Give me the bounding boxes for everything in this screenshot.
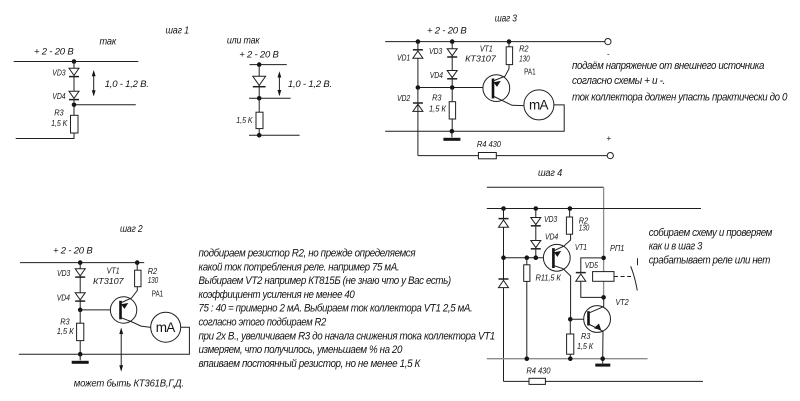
wire R2 top stub step3 xyxy=(508,42,510,47)
diode VD3 step3 xyxy=(447,49,457,57)
svg-text:VD4: VD4 xyxy=(545,233,559,242)
wire R2 top stub step4 xyxy=(569,209,571,218)
svg-text:подбираем резистор R2, но преж: подбираем резистор R2, но прежде определ… xyxy=(199,248,416,260)
wire meter to right and down step3 xyxy=(385,105,564,131)
wire top rail step1-right xyxy=(250,64,287,66)
svg-text:как и в шаг 3: как и в шаг 3 xyxy=(649,241,703,253)
svg-text:подаём напряжение от внешнего: подаём напряжение от внешнего источника xyxy=(572,60,764,72)
svg-text:согласно этого подбираем R2: согласно этого подбираем R2 xyxy=(199,317,327,329)
svg-text:1,5 К: 1,5 К xyxy=(577,342,594,351)
svg-text:130: 130 xyxy=(519,55,530,64)
node top junction step1-left xyxy=(72,59,77,64)
ground step2 xyxy=(72,354,89,364)
svg-text:впаиваем постоянный резистор,: впаиваем постоянный резистор, но не мене… xyxy=(199,358,421,370)
node R2 top step4 xyxy=(568,206,573,211)
diode VD4 (step1-left) xyxy=(69,91,79,99)
svg-text:PA1: PA1 xyxy=(524,67,536,76)
node left col top step4 xyxy=(501,206,506,211)
resistor R4 step3 xyxy=(478,153,496,159)
svg-text:130: 130 xyxy=(579,223,590,232)
node VT2 emitter step4 xyxy=(600,356,605,361)
svg-text:mA: mA xyxy=(156,320,175,335)
svg-text:так: так xyxy=(100,37,118,48)
node VD3 top step4 xyxy=(534,206,539,211)
svg-text:собираем схему и проверяем: собираем схему и проверяем xyxy=(649,227,773,239)
node top junction step1-right xyxy=(257,62,262,67)
svg-text:R3: R3 xyxy=(581,332,591,341)
diode VD4 step2 xyxy=(75,293,85,301)
diode VD5 (up) step4 xyxy=(576,273,586,282)
svg-text:+ 2 - 20 В: + 2 - 20 В xyxy=(239,49,279,60)
svg-text:130: 130 xyxy=(148,276,159,285)
svg-text:или так: или так xyxy=(227,36,261,47)
measure arrow 1,0-1,2V step1-left xyxy=(92,70,96,97)
svg-text:шаг 1: шаг 1 xyxy=(166,26,190,37)
node VT2 base junction step4 xyxy=(568,317,573,322)
diode VD3 step2 xyxy=(75,269,85,277)
svg-text:R3: R3 xyxy=(54,108,64,117)
wire VT2 base rail step4 xyxy=(570,318,589,320)
relay coil box step4 xyxy=(593,272,614,282)
svg-text:VD5: VD5 xyxy=(585,261,598,270)
svg-text:может быть КТ361В,Г,Д.: может быть КТ361В,Г,Д. xyxy=(74,378,184,390)
svg-text:VD2: VD2 xyxy=(397,94,411,103)
svg-text:при 2х В., увеличиваем R3 до н: при 2х В., увеличиваем R3 до начала сниж… xyxy=(199,330,496,342)
node VD3 top step2 xyxy=(78,260,83,265)
node R1 top step4 xyxy=(525,255,530,260)
node ground junction step2 xyxy=(78,352,83,357)
wire R3 column step3 xyxy=(451,88,453,132)
diode VD4 step4 xyxy=(531,241,541,249)
wire R2 top stub step2 xyxy=(136,263,138,271)
wire bottom rail step1-right xyxy=(249,134,300,136)
svg-text:1,5 K: 1,5 K xyxy=(236,116,253,125)
wire top rail step1-left xyxy=(14,61,139,63)
wire emitter ground rail step4 (gray) xyxy=(487,358,648,360)
diode VD3 step4 xyxy=(531,218,541,226)
svg-text:VD4: VD4 xyxy=(52,92,66,101)
resistor R3 step4 xyxy=(567,334,574,354)
svg-text:VD3: VD3 xyxy=(57,269,71,278)
node bottom junction step1-right xyxy=(257,133,262,138)
resistor R3 step3 xyxy=(449,102,455,119)
node mid junction step1-right xyxy=(257,96,262,101)
resistor R2 step3 xyxy=(506,47,512,65)
svg-text:R4 430: R4 430 xyxy=(526,366,550,375)
wire relay supply vertical (gray) step4 xyxy=(603,187,605,297)
svg-text:PA1: PA1 xyxy=(152,290,164,299)
svg-text:коэффициент усиления не менее: коэффициент усиления не менее 40 xyxy=(199,289,355,301)
wire R1 column step4 xyxy=(526,258,528,359)
node mid junction step1-left xyxy=(72,103,77,108)
node R2 top step2 xyxy=(135,260,140,265)
wire bottom rail step3 xyxy=(418,155,607,157)
svg-text:R2: R2 xyxy=(519,45,529,54)
wire diode column step1-right xyxy=(258,65,260,99)
svg-text:шаг 2: шаг 2 xyxy=(120,224,143,235)
svg-text:VD3: VD3 xyxy=(52,68,66,77)
measure arrow step1-right xyxy=(278,71,282,96)
ground step4 xyxy=(595,359,610,367)
svg-text:+: + xyxy=(607,134,612,143)
svg-text:mA: mA xyxy=(529,98,548,113)
wire VD2 column down step3 xyxy=(417,88,419,156)
svg-text:R3: R3 xyxy=(60,317,70,326)
diode VD2 (up) step3 xyxy=(413,103,423,111)
svg-text:VD3: VD3 xyxy=(544,215,558,224)
node relay bottom step4 xyxy=(601,295,606,300)
svg-text:1,5 K: 1,5 K xyxy=(51,119,68,128)
svg-text:R4 430: R4 430 xyxy=(477,140,501,149)
svg-text:ток коллектора должен упасть п: ток коллектора должен упасть практически… xyxy=(572,91,787,103)
svg-text:РП1: РП1 xyxy=(610,244,624,253)
wire mid rail step1-left xyxy=(74,104,136,106)
diode VD1 (up) xyxy=(413,50,423,58)
svg-text:VD1: VD1 xyxy=(397,54,410,63)
node R3 bottom / ground step3 xyxy=(450,129,455,134)
node VD1 top xyxy=(416,39,421,44)
wire left column step3 xyxy=(417,42,419,88)
diode VD4 step3 xyxy=(447,71,457,79)
wire resistor to bottom step1-left xyxy=(73,105,75,139)
svg-text:VD3: VD3 xyxy=(429,47,443,56)
resistor R1 step4 xyxy=(524,265,530,282)
svg-text:1,5 К: 1,5 К xyxy=(57,327,75,336)
wire top rail step2 xyxy=(20,262,144,264)
diode D-left-2 (up) step4 xyxy=(499,279,509,288)
svg-text:R11,5 К: R11,5 К xyxy=(536,274,562,283)
node R3 bottom step4 xyxy=(568,356,573,361)
wire R3 column step4 xyxy=(569,319,571,358)
diode D-left-1 (up) step4 xyxy=(499,219,509,228)
resistor R2 step4 xyxy=(566,217,572,234)
svg-text:шаг 3: шаг 3 xyxy=(495,13,518,24)
transistor VT2 step4 xyxy=(584,297,611,358)
resistor R4 step4 xyxy=(529,378,545,384)
node R1 bottom step4 xyxy=(525,356,530,361)
resistor 1,5K (step1-right) xyxy=(256,112,263,128)
wire bottom rail step4 xyxy=(504,380,704,382)
wire mid rail step1-right xyxy=(249,97,291,99)
wire resistor column step1-right xyxy=(258,98,260,135)
svg-text:какой ток потребления реле. на: какой ток потребления реле. например 75 … xyxy=(199,261,400,273)
relay dashed link step4 xyxy=(614,276,631,278)
meter PA1 mA step3 xyxy=(524,90,554,120)
svg-text:КТ3107: КТ3107 xyxy=(465,55,496,64)
ground step3 xyxy=(443,131,460,141)
wire diode column step1-left xyxy=(73,62,75,105)
terminal plus step3 xyxy=(607,153,613,159)
svg-text:R3: R3 xyxy=(432,94,442,103)
svg-text:срабатывает реле или нет: срабатывает реле или нет xyxy=(649,255,771,267)
svg-text:согласно схемы + и -.: согласно схемы + и -. xyxy=(572,75,665,87)
pointer arrow step2 xyxy=(119,328,123,372)
transistor VT1 step3 xyxy=(483,65,524,106)
svg-text:VD4: VD4 xyxy=(57,294,71,303)
terminal minus step3 xyxy=(605,39,611,45)
diode VD3 (step1-left) xyxy=(69,68,79,76)
diode VD (step1-right) xyxy=(253,76,266,86)
svg-text:КТ3107: КТ3107 xyxy=(93,277,124,286)
node VD3 top step3 xyxy=(450,39,455,44)
node VD4 bottom step4 xyxy=(534,255,539,260)
svg-text:75 : 40 = примерно 2 мА. Выбир: 75 : 40 = примерно 2 мА. Выбираем ток ко… xyxy=(199,303,473,315)
svg-text:VD4: VD4 xyxy=(430,71,444,80)
wire base rail step4 xyxy=(504,257,553,259)
node R3 top step3 xyxy=(450,85,455,90)
svg-text:1,0 - 1,2 В.: 1,0 - 1,2 В. xyxy=(288,79,332,90)
wire VD5 branch step4 xyxy=(581,258,604,298)
node left col mid step4 xyxy=(501,255,506,260)
resistor R2 step2 xyxy=(135,270,141,287)
wire top rail 2 step4 xyxy=(487,208,701,210)
svg-text:VT1: VT1 xyxy=(575,243,587,252)
transistor VT1 step4 xyxy=(543,234,570,319)
wire bottom rail step1-left xyxy=(16,138,75,140)
svg-text:1,0 - 1,2 В.: 1,0 - 1,2 В. xyxy=(105,79,149,90)
wire R3 column step2 xyxy=(79,310,81,354)
wire base rail step3 xyxy=(418,87,492,89)
relay contact step4 xyxy=(631,258,638,290)
svg-text:+ 2 - 20 В: + 2 - 20 В xyxy=(34,47,74,58)
svg-text:+ 2 - 20 В: + 2 - 20 В xyxy=(53,246,93,257)
svg-text:VT1: VT1 xyxy=(480,45,493,54)
wire top rail step3 xyxy=(385,41,605,43)
node left mid step3 xyxy=(416,85,421,90)
wire top rail 1 step4 xyxy=(487,186,604,188)
wire VD3/VD4 column step3 xyxy=(451,42,453,88)
svg-text:VT1: VT1 xyxy=(107,266,120,275)
svg-text:1,5 К: 1,5 К xyxy=(429,104,447,113)
node R2 top step3 xyxy=(507,39,512,44)
resistor R3 step2 xyxy=(77,323,84,340)
svg-text:шаг 4: шаг 4 xyxy=(538,168,563,179)
svg-text:VT2: VT2 xyxy=(616,298,629,307)
svg-text:+ 2 - 20 В: + 2 - 20 В xyxy=(427,26,467,37)
wire base rail step2 xyxy=(80,309,119,311)
svg-text:R2: R2 xyxy=(148,267,158,276)
svg-text:измеряем, что получилось, умен: измеряем, что получилось, уменьшаем % на… xyxy=(199,344,403,356)
wire left column step4 xyxy=(503,209,505,382)
node relay top step4 xyxy=(601,256,606,261)
transistor VT1 step2 xyxy=(110,287,150,328)
wire VD3/VD4 column step4 xyxy=(535,209,537,258)
svg-text:-: - xyxy=(607,50,610,59)
wire diode column step2 xyxy=(79,263,81,310)
resistor R3 (step1-left) xyxy=(71,115,79,133)
svg-text:Выбираем VT2 например КТ815Б (: Выбираем VT2 например КТ815Б (не знаю чт… xyxy=(199,275,451,287)
wire meter right down step2 xyxy=(19,327,190,354)
meter PA1 mA step2 xyxy=(151,312,181,342)
node base junction step2 xyxy=(78,308,83,313)
